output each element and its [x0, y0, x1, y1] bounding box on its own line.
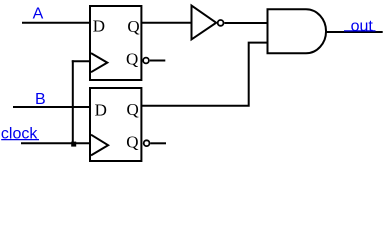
- svg-text:Q: Q: [127, 17, 139, 36]
- svg-text:Q: Q: [126, 50, 138, 69]
- svg-text:D: D: [93, 17, 105, 36]
- svg-text:Q: Q: [126, 132, 138, 151]
- svg-text:A: A: [33, 6, 44, 23]
- svg-text:B: B: [35, 91, 46, 108]
- svg-text:out: out: [351, 18, 374, 35]
- svg-text:Q: Q: [127, 100, 139, 119]
- svg-text:D: D: [95, 100, 107, 119]
